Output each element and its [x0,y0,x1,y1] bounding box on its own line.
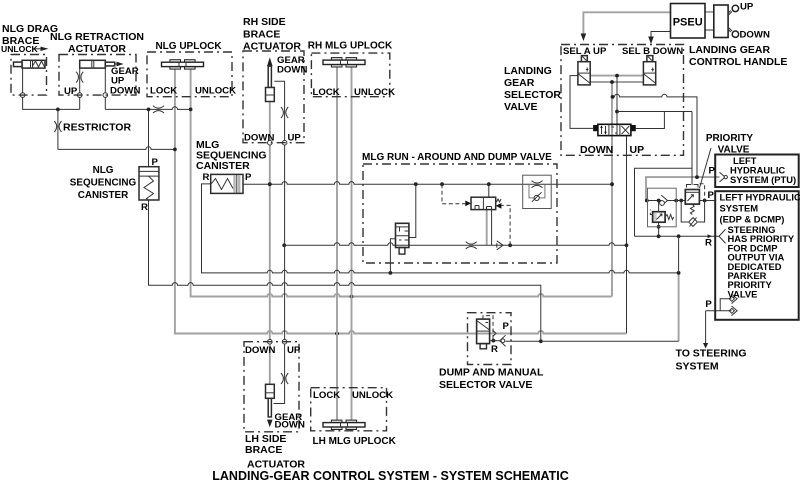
restrictor on NLG DOWN line y109 [153,106,164,113]
LEFT HYDRAULIC SYSTEM EDP box [715,191,799,320]
wire pilot line y96.9 to PTU junction [611,94,699,179]
wire selector UP output down to grey y333 [626,136,628,334]
port circles RH brace box [268,140,287,145]
LEFT HYDRAULIC SYSTEM PTU box [715,155,799,188]
svg-text:DOWN: DOWN [580,144,613,156]
svg-text:LANDING-GEAR CONTROL SYSTEM -: LANDING-GEAR CONTROL SYSTEM - SYSTEM SCH… [212,469,569,483]
svg-text:PSEU: PSEU [673,16,703,28]
wire PSEU to control handle lower [705,29,714,31]
wire sol net vertical x617 [615,74,619,135]
label SEL B DOWN [622,46,683,57]
svg-text:UNLOCK: UNLOCK [195,86,236,97]
label R (EDP port) [705,238,712,249]
wire NLG uplock LOCK line down and across y333 [175,67,627,336]
RH side brace actuator [266,57,275,101]
EDP R port chevron [719,229,726,243]
UNLOCK arrow (drag brace) [34,47,49,51]
svg-text:DOWN: DOWN [245,345,275,356]
wire selector DOWN vertical grey through spool valve [611,82,613,297]
bypass check valve in module [529,184,545,202]
dump valve P chevron [493,330,496,337]
MLG sequencing canister [211,174,243,193]
wire return x678 upper segment [678,236,680,273]
svg-text:PRIORITY: PRIORITY [706,133,754,144]
port circles LH brace box [268,339,287,344]
label LANDING GEAR CONTROL HANDLE [689,44,787,68]
svg-text:SELECTOR VALVE: SELECTOR VALVE [439,379,532,391]
label UNLOCK drag brace [1,44,39,54]
wire priority valve pilot dashed [700,184,705,201]
wire RH MLG uplock UNLOCK vertical to LH uplock [351,67,353,421]
svg-text:DOWN: DOWN [110,86,140,97]
label DUMP AND MANUAL SELECTOR VALVE [439,367,544,392]
svg-text:UNLOCK: UNLOCK [354,87,395,98]
label LOCK / UNLOCK (NLG) [150,86,236,97]
restrictor check module box [523,175,552,208]
svg-text:VALVE: VALVE [504,101,537,113]
wire restrictor branch down from y109 to y149 [58,109,177,151]
EDP P port chevrons [729,294,737,316]
wire spool valve left feed [570,76,593,129]
LH MLG uplock box [311,388,387,431]
label NLG SEQUENCING CANISTER [70,165,137,201]
svg-text:P: P [245,172,252,183]
svg-text:DOWN: DOWN [244,133,274,144]
label TO STEERING SYSTEM [676,348,747,373]
priority valve sub-box [648,188,677,227]
svg-text:RH MLG UPLOCK: RH MLG UPLOCK [308,41,393,52]
label LH SIDE BRACE ACTUATOR [245,433,305,471]
run-around shuttle valve [465,197,501,209]
dump and manual selector valve [477,316,496,349]
wire sol A to sol B grey pair [590,76,643,84]
LH side brace actuator [266,384,275,427]
wire NLG uplock UNLOCK line down and DOWN-net across y296.5 [189,67,612,299]
solenoid valve SEL B DOWN [643,56,655,85]
leader line PRIORITY VALVE [700,148,712,188]
label MLG RUN-AROUND AND DUMP VALVE [362,152,552,163]
svg-text:DOWN: DOWN [277,65,307,76]
label GEAR UP DOWN (NLG) [110,66,140,97]
port circles NLG retraction box [77,93,107,98]
svg-text:LOCK: LOCK [150,86,177,97]
svg-text:P: P [705,299,712,310]
svg-text:DOWN: DOWN [740,30,770,41]
svg-text:RH SIDE: RH SIDE [243,16,286,28]
wire dump valve left port down to y273 [390,239,395,273]
label LOCK / UNLOCK (LH MLG) [313,390,393,401]
svg-text:LEFT HYDRAULIC: LEFT HYDRAULIC [720,192,800,203]
wire priority valve main line y200.5 [645,199,716,203]
svg-text:ACTUATOR: ACTUATOR [68,43,126,55]
restrictor on LH brace UP line [281,373,288,384]
wire EDP P port bracket to steering [703,299,732,349]
label LEFT HYDRAULIC SYSTEM (PTU) [730,155,796,185]
wire run-around valve top stub [488,184,490,197]
wire pilot dashed right of run-around valve [501,205,510,245]
PSEU box [671,4,706,39]
wire pilot y168 from R net to priority valve [635,168,693,236]
label SEL A UP [563,46,607,57]
wire main line y245 RH brace UP junction to selector UP [282,243,628,248]
wire RH brace DOWN grey vertical to LH brace [269,102,271,385]
wire NLG sequencing canister P line [148,109,150,166]
label LH MLG UPLOCK [313,436,397,447]
svg-text:R: R [203,172,210,183]
landing gear control handle [714,5,739,38]
label DOWN / UP (RH box) [244,133,301,144]
svg-text:MLG RUN - AROUND AND DUMP VALV: MLG RUN - AROUND AND DUMP VALVE [362,152,552,163]
svg-text:P: P [708,190,715,201]
port circle NLG drag brace box [20,93,25,98]
svg-text:CONTROL HANDLE: CONTROL HANDLE [689,56,787,68]
label GEAR DOWN (RH) [277,55,307,76]
svg-text:CANISTER: CANISTER [78,190,128,201]
svg-text:UP: UP [740,2,754,13]
svg-text:(EDP & DCMP): (EDP & DCMP) [720,213,785,224]
RH MLG uplock box [311,53,389,97]
svg-text:R: R [141,202,148,213]
svg-text:UP: UP [630,144,645,156]
svg-text:P: P [503,321,510,332]
svg-text:VALVE: VALVE [718,145,750,156]
label P (EDP lower port) [705,299,712,310]
svg-text:NLG UPLOCK: NLG UPLOCK [155,41,222,52]
check valve on main line y245 [497,241,503,250]
wire PSEU to SEL B [651,32,671,37]
label R P (MLG canister) [203,172,253,183]
LH side brace actuator box [244,342,299,432]
svg-text:RESTRICTOR: RESTRICTOR [63,122,131,134]
wire run-around valve bottom right stub [491,210,493,246]
svg-text:P: P [709,165,716,176]
wire NLG retraction DOWN port to UNLOCK y109 [105,107,190,112]
wire grey line to LEFT HYDRAULIC SYSTEM PTU port [646,177,720,200]
svg-text:DUMP AND MANUAL: DUMP AND MANUAL [439,367,544,379]
svg-text:LANDING GEAR: LANDING GEAR [689,44,771,56]
svg-text:VALVE: VALVE [728,288,758,299]
wire PSEU to control handle upper [705,11,714,13]
restrictor (labelled RESTRICTOR) [54,121,61,132]
svg-text:SELECTOR: SELECTOR [504,89,561,101]
label LEFT HYDRAULIC SYSTEM EDP text block [720,192,800,300]
label MLG SEQUENCING CANISTER [196,139,267,172]
svg-text:CANISTER: CANISTER [196,160,250,172]
svg-text:R: R [491,344,498,355]
NLG retraction actuator cylinder [80,60,124,68]
svg-text:BRACE: BRACE [243,29,280,41]
label DOWN / UP (selector) [580,144,644,156]
NLG sequencing canister [139,167,159,200]
label UP (NLG ret box) [64,86,78,97]
wire pilot dashed left of run-around valve [442,184,465,204]
RH MLG uplock hook symbol [323,58,365,67]
svg-text:P: P [152,157,159,168]
NLG retraction actuator box [59,55,136,96]
label DOWN / UP (LH box) [245,345,301,356]
svg-text:R: R [705,238,712,249]
svg-text:LANDING: LANDING [504,65,552,77]
priority valve [685,185,699,215]
label GEAR DOWN (LH) [275,412,305,431]
NLG drag brace box [11,55,47,96]
wire R return line y341 to dump and manual selector valve [506,340,679,342]
svg-text:UNLOCK: UNLOCK [352,390,393,401]
label NLG UPLOCK [155,41,222,52]
wire relief valve stubs [657,201,661,237]
landing gear selector valve box [561,45,684,156]
svg-text:UNLOCK: UNLOCK [1,44,39,54]
svg-text:SEQUENCING: SEQUENCING [70,178,137,189]
PTU P port chevron [720,172,728,182]
restrictor on RH brace UP line [281,107,288,118]
MLG run-around and dump valve box [363,164,557,263]
svg-text:LOCK: LOCK [313,87,340,98]
svg-text:SYSTEM: SYSTEM [676,360,719,372]
label P R (dump valve) [491,321,510,355]
arrowhead into SEL B [648,37,654,45]
MLG dump valve body [396,223,409,254]
wire NLG retraction UP port down [79,68,81,109]
wire RH brace UP line down to LH brace [274,81,285,403]
label RESTRICTOR [63,122,131,134]
label P (priority line) [708,190,715,201]
wire priority valve bypass loop with check valve [681,201,704,223]
spool valve 4-way [593,124,636,135]
relief valve DCMP [650,210,673,223]
svg-text:SEL A UP: SEL A UP [563,46,607,57]
NLG uplock hook symbol [162,60,204,69]
NLG drag brace actuator cylinder [14,60,46,68]
label P (PTU port) [709,165,716,176]
wire NLG drag brace to P line y109 [23,68,80,111]
wire return vertical x678 lower grey segment [678,273,680,342]
label NLG RETRACTION ACTUATOR [50,31,144,55]
svg-text:LH MLG UPLOCK: LH MLG UPLOCK [313,436,397,447]
svg-text:GEAR: GEAR [504,77,535,89]
svg-text:UP: UP [287,345,301,356]
label LOCK / UNLOCK (RH MLG) [313,87,396,98]
wire NLG sequencing canister R line down right to x540 down [149,200,543,343]
svg-text:BRACE: BRACE [245,444,282,456]
svg-text:NLG: NLG [93,165,114,176]
NLG uplock box [147,52,232,97]
label NLG DRAG BRACE [2,23,58,47]
wire line y111.5 to spool right and priority pilot [617,112,692,186]
label UP DOWN (handle) [740,2,770,41]
svg-text:DOWN: DOWN [275,420,305,431]
RH side brace actuator box [243,51,304,143]
svg-text:SYSTEM: SYSTEM [720,202,759,213]
wire MLG sequencing canister R loop y273 [202,184,681,275]
title LANDING-GEAR CONTROL SYSTEM - SYSTEM SCHEMATIC [212,469,569,483]
restrictor in module [532,181,543,188]
LH MLG uplock hook symbol [323,420,365,429]
label RH SIDE BRACE ACTUATOR [243,16,301,53]
dump and manual selector valve box [468,313,512,365]
svg-text:TO STEERING: TO STEERING [676,348,747,360]
wire NLG retraction DOWN port down [104,68,106,109]
solenoid valve SEL A UP [578,56,590,85]
wire RH MLG uplock LOCK vertical to LH uplock [336,67,338,421]
svg-text:SEL B DOWN: SEL B DOWN [622,46,683,57]
wire PSEU to SEL A (grey pressure line) [583,12,670,34]
svg-text:SYSTEM (PTU): SYSTEM (PTU) [730,174,796,185]
svg-text:ACTUATOR: ACTUATOR [243,41,301,53]
check valve in priority cluster [660,195,668,205]
label PSEU [673,16,703,28]
restrictor on main line y245 [466,242,477,249]
svg-text:LOCK: LOCK [313,390,340,401]
label P R (NLG canister) [141,157,159,213]
bypass check diamond [689,218,698,227]
label RH MLG UPLOCK [308,41,393,52]
wire run-around valve bottom-left grey stub [486,210,488,246]
svg-text:UP: UP [64,86,78,97]
svg-text:UP: UP [288,133,302,144]
label PRIORITY VALVE [706,133,754,156]
restrictor on NLG retraction UP port [76,72,83,83]
label LANDING GEAR SELECTOR VALVE [504,65,561,113]
wire dump valve vertical from y184 down to valve right [409,184,416,237]
arrowhead into SEL A [581,34,587,42]
svg-text:NLG RETRACTION: NLG RETRACTION [50,31,144,43]
wire R line y236 to EDP R port [635,234,720,238]
wire main pressure line y184 MLG canister P to selector DOWN [243,182,614,187]
dump valve R check chevron [490,335,506,346]
